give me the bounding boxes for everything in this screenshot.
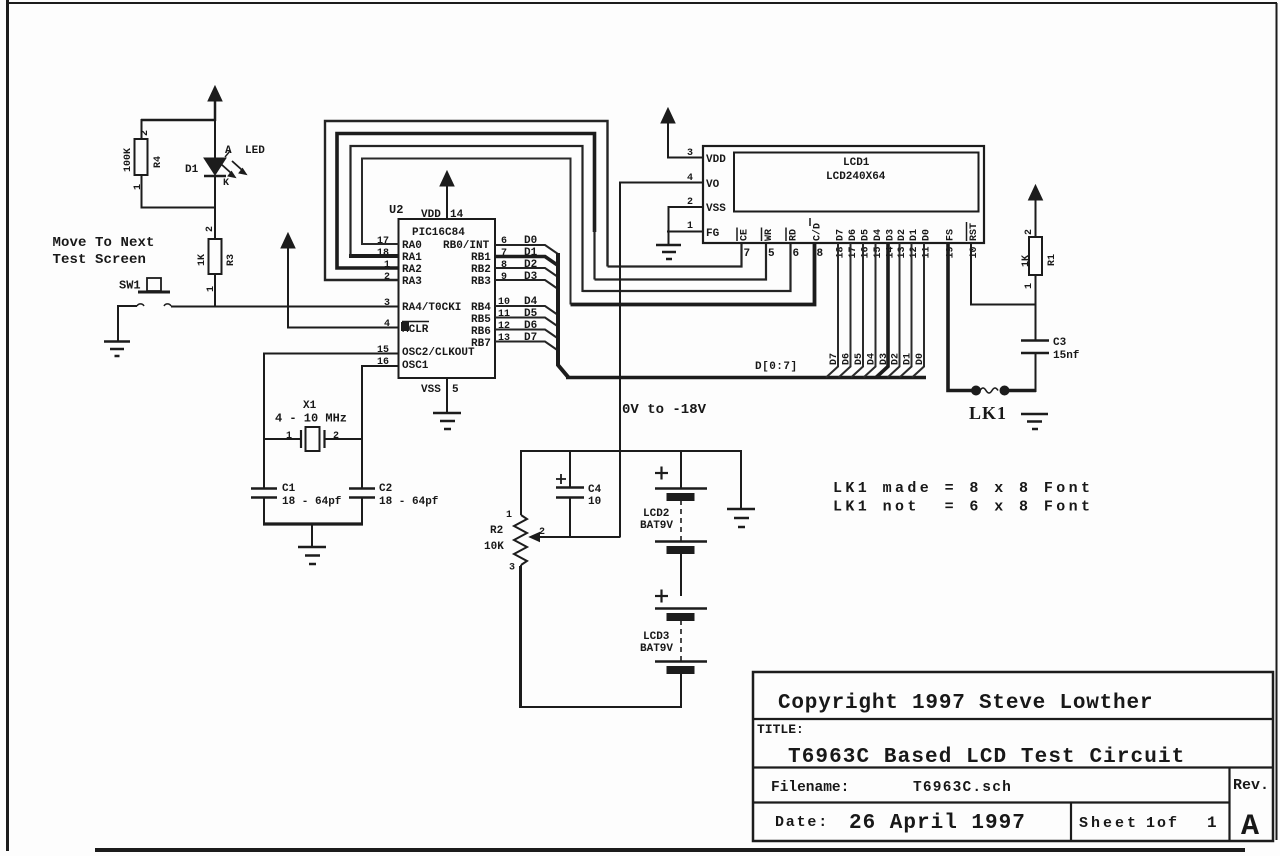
power arrow VDD LCD — [661, 108, 675, 158]
svg-text:5: 5 — [452, 384, 459, 396]
power arrow VCC (LED supply) — [208, 86, 222, 121]
data bus vertical (thick) — [558, 253, 569, 378]
wire VO pin 4 — [619, 182, 703, 184]
LCD pin C/D — [810, 218, 824, 260]
svg-text:Sheet: Sheet — [1079, 815, 1139, 832]
wire switch left to ground — [118, 306, 137, 341]
svg-text:C4: C4 — [588, 484, 602, 496]
wire RST to R1 foot — [971, 243, 1036, 305]
ground (battery rail) — [727, 509, 755, 527]
potentiometer R2 — [514, 515, 620, 708]
svg-text:2: 2 — [333, 431, 339, 442]
svg-text:X1: X1 — [303, 400, 317, 412]
svg-text:D3: D3 — [524, 271, 538, 283]
wire RA2 loop to WR (thick) — [337, 134, 595, 269]
svg-text:8: 8 — [501, 260, 507, 271]
svg-text:Rev.: Rev. — [1233, 777, 1269, 794]
svg-text:1: 1 — [1024, 283, 1035, 289]
svg-text:TITLE:: TITLE: — [757, 722, 804, 737]
svg-text:VO: VO — [706, 179, 720, 191]
svg-text:LED: LED — [245, 145, 265, 157]
wire R4 bottom to junction — [142, 175, 217, 208]
wires RB0-RB3 stubs with slants to bus — [495, 245, 558, 351]
svg-text:D5: D5 — [854, 353, 865, 365]
svg-text:2: 2 — [384, 272, 390, 283]
wire to ground — [311, 524, 313, 547]
svg-text:LK1: LK1 — [969, 403, 1007, 423]
svg-text:10: 10 — [588, 496, 601, 508]
svg-text:RB0/INT: RB0/INT — [443, 240, 490, 252]
svg-text:RA1: RA1 — [402, 252, 422, 264]
svg-text:2: 2 — [539, 527, 545, 538]
power arrow R1 — [1029, 185, 1043, 237]
svg-text:2: 2 — [205, 226, 216, 232]
LCD pin numbers 18-11 — [836, 246, 933, 258]
svg-text:D7: D7 — [836, 229, 847, 241]
svg-text:D7: D7 — [829, 353, 840, 365]
svg-text:Test Screen: Test Screen — [53, 252, 147, 268]
resistor R3 — [209, 239, 222, 274]
wire VO contrast line 0V to -18V — [619, 183, 621, 538]
svg-text:D2: D2 — [524, 259, 537, 271]
data bus horizontal D[0:7] — [566, 376, 926, 380]
svg-text:CE: CE — [740, 229, 751, 241]
LED D1 — [204, 120, 247, 239]
svg-text:D1: D1 — [903, 353, 914, 365]
svg-text:K: K — [223, 178, 229, 189]
wire CE route — [608, 243, 742, 267]
bus entry labels D7-D0 — [829, 353, 926, 365]
svg-text:T6963C Based LCD Test Circuit: T6963C Based LCD Test Circuit — [788, 746, 1185, 769]
wire RD route — [583, 243, 791, 291]
ground (crystal) — [298, 547, 326, 564]
resistor R1 — [1029, 237, 1042, 275]
svg-text:R3: R3 — [226, 254, 237, 266]
svg-text:RA2: RA2 — [402, 264, 422, 276]
svg-text:1K: 1K — [1021, 255, 1032, 267]
svg-text:1of: 1of — [1146, 815, 1179, 832]
svg-text:100K: 100K — [123, 148, 134, 172]
capacitor C2 — [349, 489, 375, 526]
power arrow VDD U2 — [440, 171, 454, 219]
svg-text:D0: D0 — [915, 353, 926, 365]
wire RA0 loop to C/D — [362, 159, 571, 305]
svg-text:0V to -18V: 0V to -18V — [622, 402, 707, 418]
svg-text:8: 8 — [817, 248, 824, 260]
svg-text:D6: D6 — [842, 353, 853, 365]
svg-text:Move To Next: Move To Next — [53, 235, 155, 251]
wire VSS pin 2 — [669, 207, 704, 231]
ground (C3/LK1) — [1021, 414, 1048, 429]
svg-text:D1: D1 — [909, 229, 920, 241]
wire bottom joining C1 C2 — [263, 522, 363, 525]
LCD pin RST — [967, 222, 981, 259]
wire switch to RA4 — [171, 306, 399, 308]
svg-text:RB2: RB2 — [471, 264, 491, 276]
svg-text:6: 6 — [793, 248, 800, 260]
wires LCD data D7-D0 down to bus — [826, 243, 924, 378]
wire MCLR — [287, 327, 399, 329]
svg-text:RST: RST — [969, 223, 980, 241]
link LK1 — [972, 386, 1037, 395]
svg-text:7: 7 — [744, 248, 751, 260]
svg-text:3: 3 — [384, 298, 390, 309]
svg-text:D2: D2 — [891, 353, 902, 365]
svg-text:5: 5 — [768, 248, 775, 260]
svg-text:3: 3 — [509, 563, 515, 574]
battery LCD3 BAT9V — [655, 590, 707, 709]
svg-text:2: 2 — [687, 197, 693, 208]
svg-text:C2: C2 — [379, 483, 392, 495]
svg-text:WR: WR — [764, 229, 775, 241]
ground (U2 VSS) — [433, 413, 461, 429]
svg-text:4: 4 — [687, 173, 693, 184]
wire VSS to ground — [446, 378, 448, 413]
svg-text:RA4/T0CKI: RA4/T0CKI — [402, 302, 461, 314]
svg-text:LCD1: LCD1 — [843, 157, 870, 169]
svg-text:FG: FG — [706, 228, 720, 240]
wire VDD pin 3 — [667, 157, 703, 159]
svg-text:RB1: RB1 — [471, 252, 491, 264]
wire D3 (thick) — [876, 243, 888, 378]
wire C/D route (thick) — [571, 243, 815, 305]
svg-text:RB3: RB3 — [471, 276, 491, 288]
svg-text:4 - 10 MHz: 4 - 10 MHz — [275, 412, 347, 426]
svg-text:D[0:7]: D[0:7] — [755, 361, 798, 373]
svg-text:D4: D4 — [873, 229, 884, 241]
wire OSC2 to left leg — [264, 354, 399, 489]
svg-text:VSS: VSS — [706, 203, 726, 215]
svg-text:VDD: VDD — [421, 209, 441, 221]
svg-text:VSS: VSS — [421, 384, 441, 396]
svg-text:LK1 not = 6 x 8 Font: LK1 not = 6 x 8 Font — [833, 499, 1093, 516]
svg-text:2: 2 — [1024, 229, 1035, 235]
svg-text:C1: C1 — [282, 483, 296, 495]
resistor R4 — [135, 139, 148, 175]
LCD1 body — [703, 146, 984, 243]
svg-text:R1: R1 — [1047, 254, 1058, 266]
wire FG pin 1 — [667, 231, 703, 233]
svg-text:LCD240X64: LCD240X64 — [826, 171, 886, 183]
LCD pin WR — [762, 228, 776, 261]
svg-text:C/D: C/D — [812, 223, 824, 241]
svg-text:RB5: RB5 — [471, 314, 491, 326]
svg-text:2: 2 — [140, 130, 151, 136]
capacitor C4 (electrolytic) — [569, 451, 571, 487]
svg-text:OSC1: OSC1 — [402, 360, 429, 372]
wire R3 bottom — [214, 274, 216, 307]
svg-text:D4: D4 — [867, 353, 878, 365]
svg-text:D3: D3 — [879, 353, 890, 365]
wire contrast top rail — [521, 450, 741, 452]
svg-text:1: 1 — [687, 221, 693, 232]
svg-text:VDD: VDD — [706, 154, 726, 166]
svg-text:OSC2/CLKOUT: OSC2/CLKOUT — [402, 347, 475, 359]
svg-text:1: 1 — [1207, 814, 1217, 832]
svg-text:R4: R4 — [153, 156, 164, 168]
svg-text:LCD3: LCD3 — [643, 631, 670, 643]
svg-text:4: 4 — [384, 319, 390, 330]
svg-text:R2: R2 — [490, 525, 503, 537]
svg-text:18 - 64pf: 18 - 64pf — [282, 496, 342, 508]
svg-text:3: 3 — [687, 148, 693, 159]
svg-text:D1: D1 — [185, 164, 199, 176]
wire top horizontal to R4 — [141, 119, 216, 122]
svg-text:D5: D5 — [861, 229, 872, 241]
svg-text:1: 1 — [506, 510, 512, 521]
svg-text:15nf: 15nf — [1053, 350, 1080, 362]
capacitor C3 — [1021, 341, 1049, 393]
svg-text:Date:: Date: — [775, 814, 829, 831]
svg-text:10K: 10K — [484, 541, 504, 553]
power arrow MCLR pull-up — [281, 233, 295, 327]
svg-text:Copyright 1997 Steve Lowther: Copyright 1997 Steve Lowther — [778, 692, 1153, 715]
svg-text:C3: C3 — [1053, 337, 1067, 349]
svg-text:1: 1 — [286, 431, 292, 442]
svg-text:RA0: RA0 — [402, 240, 422, 252]
battery LCD2 BAT9V — [680, 451, 682, 488]
ground (below SW1) — [104, 342, 130, 357]
wire pot top — [520, 450, 522, 515]
svg-text:D3: D3 — [886, 229, 897, 241]
wire to right ground — [740, 450, 742, 509]
svg-text:LK1 made = 8 x 8 Font: LK1 made = 8 x 8 Font — [833, 480, 1093, 497]
svg-text:17: 17 — [377, 236, 389, 247]
svg-text:SW1: SW1 — [119, 279, 141, 293]
svg-text:A: A — [225, 145, 232, 157]
svg-text:Filename:: Filename: — [771, 780, 849, 796]
svg-text:1K: 1K — [197, 254, 208, 266]
svg-text:D6: D6 — [848, 229, 859, 241]
svg-text:LCD2: LCD2 — [643, 508, 669, 520]
svg-text:D0: D0 — [922, 229, 933, 241]
wire OSC1 to right leg — [362, 366, 399, 488]
wire RA1 loop to RD — [351, 146, 583, 292]
svg-text:RB6: RB6 — [471, 326, 491, 338]
svg-text:26 April 1997: 26 April 1997 — [849, 812, 1026, 835]
LCD pin RD — [786, 228, 800, 261]
svg-text:U2: U2 — [389, 203, 403, 217]
IC U2 PIC16C84 body — [399, 219, 496, 378]
svg-text:RD: RD — [789, 229, 800, 241]
ground (LCD FG) — [656, 231, 681, 259]
svg-text:FS: FS — [946, 229, 957, 241]
capacitor C1 — [251, 489, 277, 526]
svg-text:RB7: RB7 — [471, 338, 491, 350]
svg-text:T6963C.sch: T6963C.sch — [913, 780, 1012, 796]
wire R4 top stub — [141, 119, 143, 139]
svg-text:18 - 64pf: 18 - 64pf — [379, 496, 439, 508]
wire R1 to C3 — [1035, 275, 1037, 341]
svg-text:14: 14 — [450, 209, 464, 221]
LCD pin CE — [737, 228, 751, 261]
svg-text:PIC16C84: PIC16C84 — [412, 227, 465, 239]
wire FS to LK1 (thick) — [948, 243, 976, 391]
svg-text:BAT9V: BAT9V — [640, 520, 673, 532]
svg-text:9: 9 — [501, 272, 507, 283]
wire battery bottom return — [520, 566, 682, 707]
svg-text:D2: D2 — [897, 229, 908, 241]
svg-text:RA3: RA3 — [402, 276, 422, 288]
svg-text:A: A — [1241, 810, 1259, 844]
LCD pins D7-D0 labels — [836, 229, 933, 241]
svg-text:BAT9V: BAT9V — [640, 643, 673, 655]
wire RA1 stub thick — [349, 254, 399, 258]
svg-text:RB4: RB4 — [471, 302, 491, 314]
wire RA3 loop to CE — [325, 121, 608, 280]
wire RB1 stub thick — [495, 257, 558, 266]
wire WR route — [595, 243, 767, 280]
